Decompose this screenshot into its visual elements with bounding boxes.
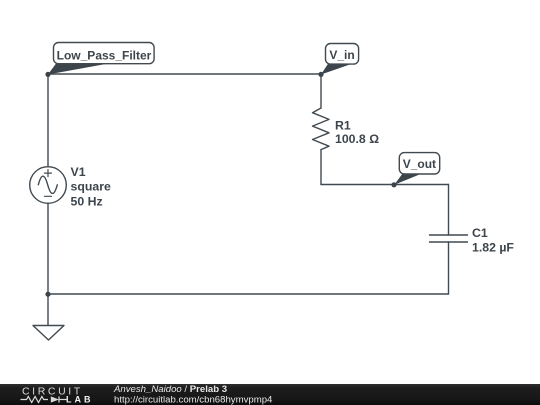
wire left lower (47, 203, 49, 294)
wire left upper (47, 74, 49, 167)
node Low_Pass_Filter dot (45, 72, 50, 77)
wire top horizontal (48, 73, 321, 75)
flag wedge V_in (321, 62, 352, 75)
wire middle horizontal (321, 184, 449, 186)
voltage source V1 (30, 167, 67, 204)
svg-text:R1: R1 (335, 118, 351, 132)
svg-text:50 Hz: 50 Hz (71, 194, 103, 208)
flag wedge Low_Pass_Filter (48, 61, 110, 75)
node V_out dot (391, 182, 396, 187)
capacitor C1 (430, 235, 468, 242)
node V_in dot (318, 72, 323, 77)
label box V_out (399, 153, 439, 174)
svg-text:V_in: V_in (329, 48, 354, 62)
svg-text:C1: C1 (472, 226, 488, 240)
logo diode (51, 396, 59, 402)
svg-text:V_out: V_out (403, 157, 436, 171)
wire resistor bottom lead (320, 150, 322, 185)
wire resistor top lead (320, 74, 322, 108)
node ground junction dot (45, 292, 50, 297)
svg-text:100.8 Ω: 100.8 Ω (335, 132, 379, 146)
svg-text:square: square (71, 180, 111, 194)
label box Low_Pass_Filter (54, 43, 155, 64)
label box V_in (326, 44, 359, 65)
flag wedge V_out (394, 172, 421, 185)
wire ground lead (47, 294, 49, 326)
ground (33, 326, 64, 341)
resistor R1 (313, 108, 330, 150)
wire right upper (448, 185, 450, 236)
svg-text:http://circuitlab.com/cbn68hym: http://circuitlab.com/cbn68hymvpmp4 (114, 394, 273, 405)
logo circuit symbol (21, 396, 67, 402)
svg-text:V1: V1 (71, 165, 86, 179)
wire right lower (448, 242, 450, 294)
svg-text:1.82 µF: 1.82 µF (472, 241, 514, 255)
svg-text:Low_Pass_Filter: Low_Pass_Filter (57, 49, 152, 63)
svg-text:LAB: LAB (66, 395, 94, 405)
wire bottom horizontal (48, 293, 449, 295)
